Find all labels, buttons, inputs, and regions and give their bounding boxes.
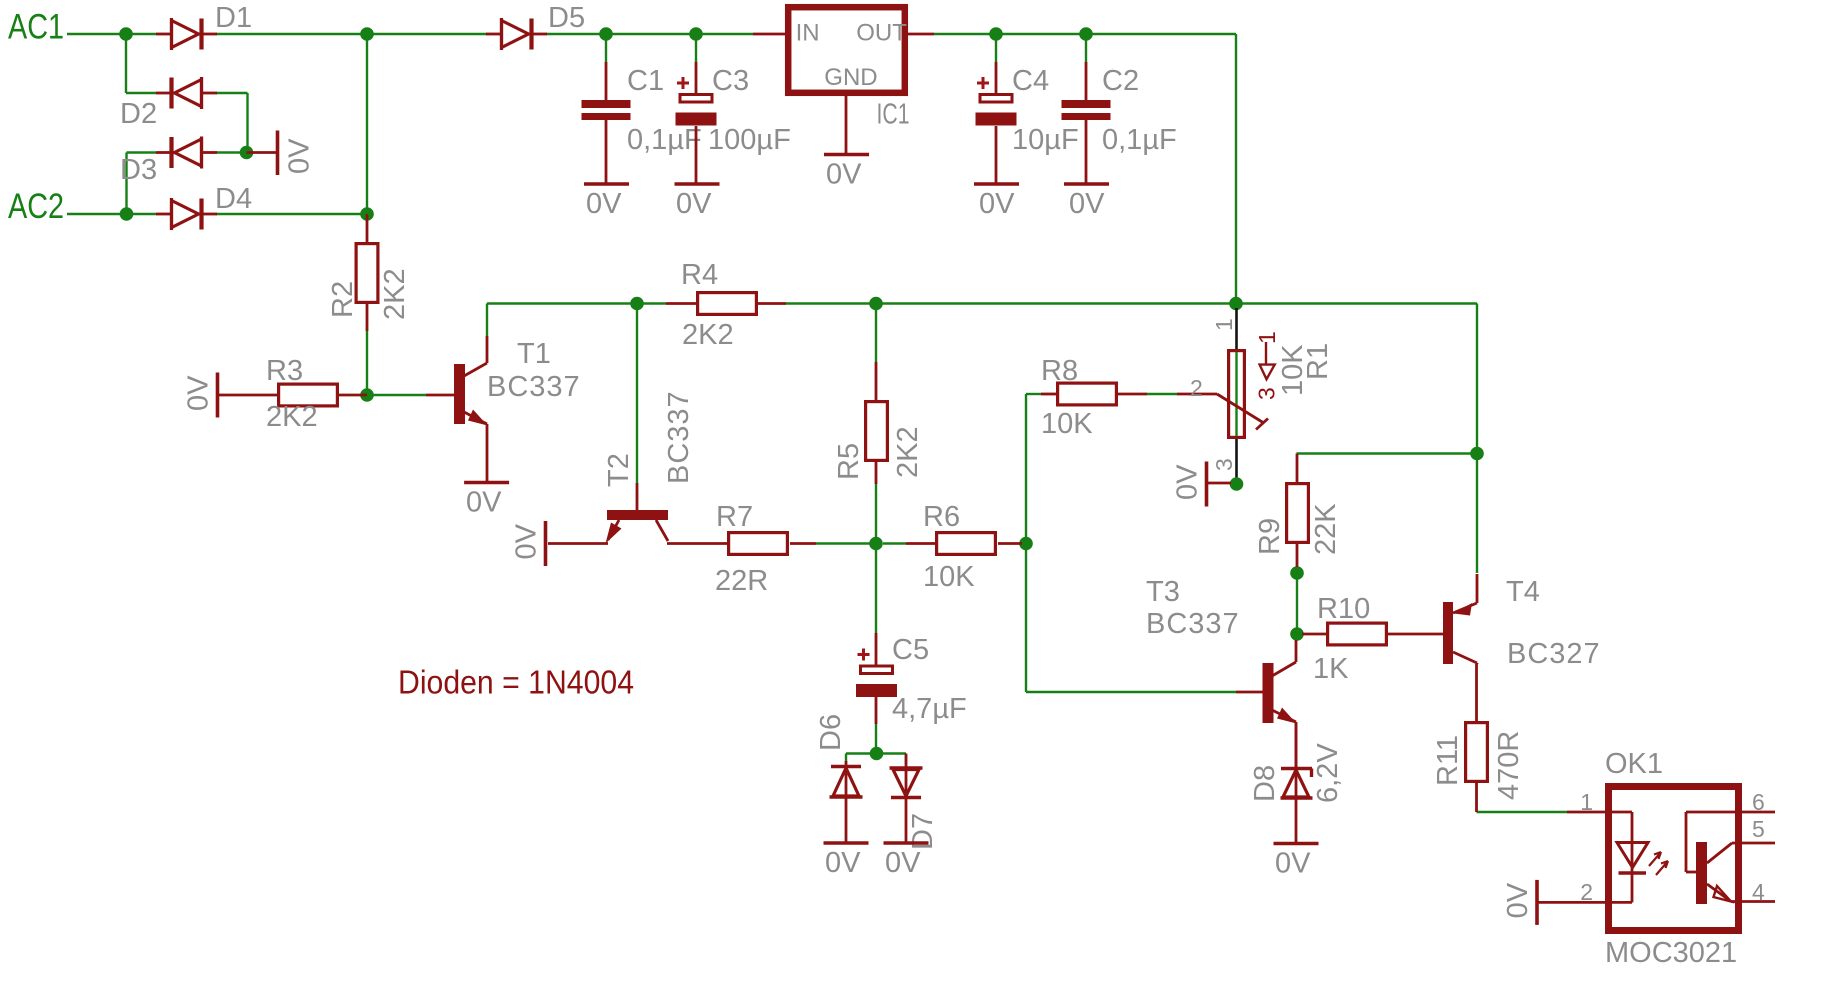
R11 pins <box>1475 664 1478 812</box>
ground 0V (OK1 pin2) <box>1535 880 1539 925</box>
svg-text:GND: GND <box>824 64 877 91</box>
IC1 OUT pin label <box>856 19 907 46</box>
0V label (IC1) <box>826 159 862 191</box>
R3 pins <box>218 394 367 397</box>
svg-text:5: 5 <box>1752 816 1765 842</box>
ground 0V (C2) <box>1064 182 1109 186</box>
T2 value label BC337 <box>663 390 695 484</box>
svg-text:R7: R7 <box>716 501 753 533</box>
svg-text:0V: 0V <box>586 188 622 220</box>
wire AC1 branch down to D2 <box>126 34 156 93</box>
wire AC2 input to D4 <box>67 213 156 215</box>
wire C5 to D6/D7 node <box>875 724 877 748</box>
R8 value label 10K <box>1041 408 1093 440</box>
svg-text:R10: R10 <box>1317 593 1370 625</box>
D1 name label <box>215 2 252 34</box>
svg-text:2K2: 2K2 <box>892 426 924 478</box>
wire base node to T1 base pin <box>367 394 426 396</box>
junction C4 node <box>989 27 1003 41</box>
svg-text:1: 1 <box>1211 318 1237 331</box>
T4 name label <box>1506 576 1540 608</box>
wire R8 right to R1 wiper <box>1147 393 1177 395</box>
svg-text:D1: D1 <box>215 2 252 34</box>
wire IC1 OUT to right rail <box>934 33 1236 35</box>
annotation Dioden = 1N4004 <box>398 663 634 700</box>
wire R7 to R6 net <box>816 542 876 544</box>
svg-text:3: 3 <box>1211 458 1237 471</box>
svg-text:4,7µF: 4,7µF <box>892 693 967 725</box>
wire D3 anode to 0V node <box>216 151 240 153</box>
wire 0V node to ground (bridge) <box>247 151 279 154</box>
R1 pin 3 number <box>1211 458 1237 471</box>
R6 value label 10K <box>923 561 975 593</box>
svg-text:0V: 0V <box>466 487 502 519</box>
wire R9 node to R10 node <box>1296 573 1298 634</box>
wire C1 top <box>605 40 607 62</box>
svg-text:OUT: OUT <box>856 19 907 46</box>
C4 pins <box>995 62 998 183</box>
T2 name label <box>603 453 635 487</box>
ground 0V (C3) <box>675 182 720 186</box>
R1 direction arrow <box>1260 342 1275 379</box>
svg-text:T1: T1 <box>517 338 551 370</box>
ground 0V (T2 emitter) <box>544 521 548 566</box>
C2 name label <box>1102 65 1139 97</box>
C2 value label 0,1µF <box>1102 124 1177 156</box>
svg-text:R11: R11 <box>1432 735 1464 786</box>
R1 pin 1 number <box>1211 318 1237 331</box>
svg-text:2K2: 2K2 <box>682 319 734 351</box>
wire node down and right to T3 base <box>1026 544 1236 693</box>
transistor T1 <box>426 336 488 482</box>
R1 pin 3 wire (black) <box>1235 438 1238 482</box>
0V label (T1 emitter) <box>466 487 502 519</box>
C4 value label 10µF <box>1012 124 1079 156</box>
wire R6 left pin net <box>883 542 906 544</box>
OK1 pin 2 line <box>1538 874 1632 902</box>
wire R5 top pin net <box>875 304 877 363</box>
C3 value label 100µF <box>708 124 791 156</box>
R5 name label <box>833 443 865 480</box>
0V label (D6) <box>825 847 861 879</box>
wire C4 top <box>995 40 997 62</box>
wire D4 cathode to R2 <box>216 213 367 215</box>
ground 0V (D7) <box>884 841 929 845</box>
C5 name label <box>892 634 929 666</box>
svg-text:2K2: 2K2 <box>379 268 411 320</box>
R10 pins <box>1302 633 1443 636</box>
OK1 pin 4 line <box>1731 900 1775 903</box>
ground 0V (IC1) <box>824 153 869 157</box>
zener diode D8 <box>1281 723 1313 843</box>
junction AC2/D3 node <box>120 207 134 221</box>
0V label (OK1 pin2) <box>1502 882 1534 918</box>
svg-text:R2: R2 <box>327 281 359 318</box>
R1 pin 2 number <box>1190 375 1203 401</box>
D8 name label <box>1249 765 1281 802</box>
svg-text:0V: 0V <box>1275 848 1311 880</box>
potentiometer R1 body <box>1229 351 1245 438</box>
R1 direction mark 3 <box>1254 387 1280 400</box>
wire node down to T4 emitter <box>1476 454 1478 574</box>
transistor T4 <box>1443 574 1477 664</box>
R3 name label <box>266 355 303 387</box>
diode D1 <box>156 18 217 50</box>
wire C3 top <box>695 40 697 62</box>
svg-text:R8: R8 <box>1041 355 1078 387</box>
R2 value label 2K2 <box>379 268 411 320</box>
junction D2/D3 0V node <box>240 146 254 160</box>
junction D4/R2 node <box>360 207 374 221</box>
wire D3 cathode branch to AC2 <box>127 153 157 215</box>
svg-text:0V: 0V <box>284 138 316 174</box>
resistor R5 <box>866 402 888 461</box>
label AC1 <box>8 8 64 47</box>
diode D3 <box>156 137 217 169</box>
0V label (C1) <box>586 188 622 220</box>
T1 value label BC337 <box>487 371 581 403</box>
svg-text:R9: R9 <box>1254 518 1286 555</box>
svg-text:R3: R3 <box>266 355 303 387</box>
R8 name label <box>1041 355 1078 387</box>
wire D1 cathode to D5 anode <box>216 33 487 35</box>
ground 0V (R3) <box>216 373 220 418</box>
junction R10/T3 collector node <box>1290 627 1304 641</box>
svg-text:BC337: BC337 <box>663 390 695 484</box>
svg-text:R5: R5 <box>833 443 865 480</box>
svg-text:0V: 0V <box>1069 188 1105 220</box>
IC1 name label <box>877 99 910 131</box>
wire C2 top <box>1085 40 1087 62</box>
junction D1/D4 rectified node <box>360 27 374 41</box>
capacitor C1 <box>582 100 631 120</box>
svg-text:IC1: IC1 <box>877 99 910 131</box>
wire R6 right to R8 node <box>1020 542 1026 544</box>
OK1 LED light arrows <box>1649 852 1668 875</box>
junction C3 node <box>689 27 703 41</box>
diode D2 <box>156 77 217 109</box>
svg-text:BC337: BC337 <box>487 371 581 403</box>
svg-text:AC1: AC1 <box>8 8 64 47</box>
0V label (T2 emitter) <box>511 523 543 559</box>
R6 name label <box>923 501 960 533</box>
C5 value label 4,7µF <box>892 693 967 725</box>
svg-text:0V: 0V <box>825 847 861 879</box>
junction C5/D6/D7 node <box>870 747 884 761</box>
capacitor C5 (polarized) <box>856 666 897 697</box>
voltage regulator IC1 <box>753 7 934 153</box>
0V label (C3) <box>676 188 712 220</box>
R1 pin 1 wire (black) <box>1235 308 1238 351</box>
svg-text:D2: D2 <box>120 98 157 130</box>
R5 value label 2K2 <box>892 426 924 478</box>
svg-text:2: 2 <box>1190 375 1203 401</box>
junction R6/R8/T3 node <box>1019 537 1033 551</box>
junction R4/R5 node <box>869 297 883 311</box>
junction AC1/D2 node <box>119 27 133 41</box>
C3 plus sign <box>677 77 689 89</box>
wire R4 right to R5/R1 rail <box>786 302 1236 304</box>
C4 plus sign <box>977 77 989 89</box>
wire R11 to OK1 anode <box>1477 811 1568 813</box>
R7 pins <box>790 542 816 545</box>
svg-text:C3: C3 <box>712 65 749 97</box>
ground 0V (D8) <box>1274 842 1319 846</box>
svg-text:10K: 10K <box>1041 408 1093 440</box>
capacitor C4 (polarized) <box>976 95 1017 126</box>
svg-text:2K2: 2K2 <box>266 401 318 433</box>
label AC2 <box>8 187 64 226</box>
R9 name label <box>1254 518 1286 555</box>
svg-text:6,2V: 6,2V <box>1312 743 1344 803</box>
R1 value label 10K <box>1277 344 1309 396</box>
svg-text:0V: 0V <box>676 188 712 220</box>
diode D4 <box>156 198 217 230</box>
wire node to D6 <box>846 754 876 763</box>
wire R8 branch up <box>1026 394 1041 544</box>
wire R5 bottom to node <box>875 484 877 544</box>
wire R1 pin3 to ground <box>1208 482 1231 485</box>
svg-text:22R: 22R <box>715 565 768 597</box>
svg-text:22K: 22K <box>1310 503 1342 555</box>
OK1 pin 2 number <box>1580 879 1593 905</box>
svg-text:OK1: OK1 <box>1605 748 1663 780</box>
svg-text:C5: C5 <box>892 634 929 666</box>
svg-text:470R: 470R <box>1493 731 1525 800</box>
C1 name label <box>627 65 664 97</box>
R4 value label 2K2 <box>682 319 734 351</box>
ground 0V (C4) <box>974 182 1019 186</box>
wire AC1 input to D1 <box>67 33 156 35</box>
svg-text:D8: D8 <box>1249 765 1281 802</box>
D6 name label <box>815 714 847 751</box>
wire node to D7 <box>876 754 906 765</box>
svg-text:T2: T2 <box>603 453 635 487</box>
svg-text:D4: D4 <box>215 183 252 215</box>
ground 0V (T1 emitter) <box>464 481 509 485</box>
resistor R7 <box>729 533 788 555</box>
svg-text:T4: T4 <box>1506 576 1540 608</box>
svg-text:C2: C2 <box>1102 65 1139 97</box>
R10 value label 1K <box>1313 653 1349 685</box>
0V label (R1 pin3) <box>1172 464 1204 500</box>
OK1 pin 1 line <box>1567 812 1632 873</box>
diode D6 <box>830 761 863 843</box>
junction R9 lower node <box>1290 566 1304 580</box>
wire T1 collector to R4 node <box>487 304 637 337</box>
wire rectified node down to AC2 row <box>366 40 368 208</box>
R1 name label <box>1302 343 1334 380</box>
D4 name label <box>215 183 252 215</box>
R2 name label <box>327 281 359 318</box>
svg-text:10µF: 10µF <box>1012 124 1079 156</box>
svg-text:BC337: BC337 <box>1146 608 1240 640</box>
svg-text:0V: 0V <box>511 523 543 559</box>
svg-text:T3: T3 <box>1146 576 1180 608</box>
junction R5/R6/R7/C5 node <box>869 537 883 551</box>
svg-text:R6: R6 <box>923 501 960 533</box>
OK1 pin 5 number <box>1752 816 1765 842</box>
svg-text:0,1µF: 0,1µF <box>627 124 702 156</box>
R6 pins <box>906 542 1022 545</box>
wire node down to T2 base <box>636 304 638 484</box>
svg-text:0V: 0V <box>826 159 862 191</box>
OK1 pin 6 number <box>1752 789 1765 815</box>
svg-text:0V: 0V <box>1502 882 1534 918</box>
svg-text:0V: 0V <box>183 375 215 411</box>
R1 wiper internal line (green) <box>1235 351 1237 438</box>
R8 pins <box>1041 393 1147 396</box>
svg-text:MOC3021: MOC3021 <box>1605 937 1737 969</box>
IC1 IN pin label <box>796 19 820 46</box>
svg-text:IN: IN <box>796 19 820 46</box>
junction R1 pin3/0V node <box>1230 477 1244 491</box>
svg-text:C1: C1 <box>627 65 664 97</box>
C1 value label 0,1µF <box>627 124 702 156</box>
junction T4 emitter node <box>1470 447 1484 461</box>
svg-text:1K: 1K <box>1313 653 1349 685</box>
T3 name label <box>1146 576 1180 608</box>
OK1 value label MOC3021 <box>1605 937 1737 969</box>
svg-text:0V: 0V <box>885 847 921 879</box>
D7 name label <box>907 813 939 850</box>
resistor R4 <box>698 293 757 315</box>
wire +V rail to T4 emitter branch <box>1236 304 1477 454</box>
OK1 pin 5 line <box>1732 842 1775 845</box>
R5 pins <box>875 362 878 484</box>
svg-text:BC327: BC327 <box>1507 638 1601 670</box>
junction C1 node <box>599 27 613 41</box>
transistor T2 <box>548 483 727 544</box>
svg-text:0,1µF: 0,1µF <box>1102 124 1177 156</box>
resistor R6 <box>937 533 996 555</box>
0V label (C2) <box>1069 188 1105 220</box>
ground 0V (C1) <box>584 182 629 186</box>
C3 name label <box>712 65 749 97</box>
svg-text:Dioden = 1N4004: Dioden = 1N4004 <box>398 663 634 700</box>
R1 wiper arm <box>1177 394 1268 430</box>
ground 0V (bridge) <box>276 131 280 176</box>
svg-text:10K: 10K <box>1277 344 1309 396</box>
optocoupler OK1 box <box>1609 787 1739 931</box>
R10 name label <box>1317 593 1370 625</box>
0V label (C4) <box>979 188 1015 220</box>
OK1 pin 4 number <box>1752 879 1765 905</box>
OK1 pin 6 line <box>1742 811 1775 814</box>
capacitor C2 <box>1062 100 1111 120</box>
diode D5 <box>486 18 547 50</box>
diode D7 <box>890 754 923 844</box>
resistor R8 <box>1058 383 1117 405</box>
0V label (bridge) <box>284 138 316 174</box>
C5 plus sign <box>858 649 870 661</box>
C3 pins <box>695 62 698 183</box>
wire +V right rail down to R1 node <box>1235 34 1237 304</box>
junction R2/R3/T1 base node <box>360 388 374 402</box>
R7 name label <box>716 501 753 533</box>
R4 pins <box>666 302 786 305</box>
ground 0V (R1 pin3) <box>1205 462 1209 507</box>
OK1 LED <box>1617 843 1648 874</box>
C5 pins <box>875 633 878 724</box>
svg-text:D3: D3 <box>120 154 157 186</box>
resistor R3 <box>279 384 338 406</box>
R1 direction mark 1 <box>1254 331 1280 344</box>
R4 name label <box>681 259 718 291</box>
R11 value label 470R <box>1493 731 1525 800</box>
capacitor C3 (polarized) <box>676 95 717 126</box>
svg-text:2: 2 <box>1580 879 1593 905</box>
D5 name label <box>548 2 585 34</box>
resistor R9 <box>1287 484 1309 543</box>
IC1 GND pin label <box>824 64 877 91</box>
OK1 phototriac <box>1686 812 1735 904</box>
svg-text:D6: D6 <box>815 714 847 751</box>
R3 value label 2K2 <box>266 401 318 433</box>
ground 0V (D6) <box>824 841 869 845</box>
R11 name label <box>1432 735 1464 786</box>
svg-text:AC2: AC2 <box>8 187 64 226</box>
wire D2 anode to 0V node <box>216 93 248 153</box>
R7 value label 22R <box>715 565 768 597</box>
C1 pins <box>605 62 608 183</box>
resistor R2 <box>356 244 378 303</box>
junction T1/T2/R4 node <box>630 297 644 311</box>
0V label (D7) <box>885 847 921 879</box>
T3 value label BC337 <box>1146 608 1240 640</box>
R2 bottom pin <box>366 304 369 331</box>
svg-text:0V: 0V <box>979 188 1015 220</box>
svg-text:4: 4 <box>1752 879 1765 905</box>
R9 pins <box>1296 454 1299 568</box>
svg-text:0V: 0V <box>1172 464 1204 500</box>
D2 name label <box>120 98 157 130</box>
junction C2 node <box>1079 27 1093 41</box>
OK1 pin 1 number <box>1580 789 1593 815</box>
transistor T3 <box>1236 640 1297 767</box>
svg-text:100µF: 100µF <box>708 124 791 156</box>
R9 value label 22K <box>1310 503 1342 555</box>
R1 internal element line <box>1235 352 1237 436</box>
svg-text:6: 6 <box>1752 789 1765 815</box>
D8 value label 6,2V <box>1312 743 1344 803</box>
svg-text:10K: 10K <box>923 561 975 593</box>
wire R4 left pin net <box>637 302 666 304</box>
junction +V/R1 node <box>1229 297 1243 311</box>
wire node down to C5 <box>875 544 877 634</box>
0V label (D8) <box>1275 848 1311 880</box>
svg-text:3: 3 <box>1254 387 1280 400</box>
C4 name label <box>1012 65 1049 97</box>
svg-text:R4: R4 <box>681 259 718 291</box>
D3 name label <box>120 154 157 186</box>
0V label (R3) <box>183 375 215 411</box>
wire D5 cathode to IC1 IN <box>546 33 753 35</box>
OK1 name label <box>1605 748 1663 780</box>
svg-text:1: 1 <box>1580 789 1593 815</box>
wire R9 top branch <box>1297 452 1478 454</box>
svg-text:C4: C4 <box>1012 65 1049 97</box>
R2 top pin <box>366 214 369 242</box>
T4 value label BC327 <box>1507 638 1601 670</box>
resistor R10 <box>1328 623 1387 645</box>
T1 name label <box>517 338 551 370</box>
wire R2 to T1 base node <box>366 331 368 395</box>
resistor R11 <box>1466 723 1488 782</box>
svg-text:D5: D5 <box>548 2 585 34</box>
C2 pins <box>1085 62 1088 183</box>
